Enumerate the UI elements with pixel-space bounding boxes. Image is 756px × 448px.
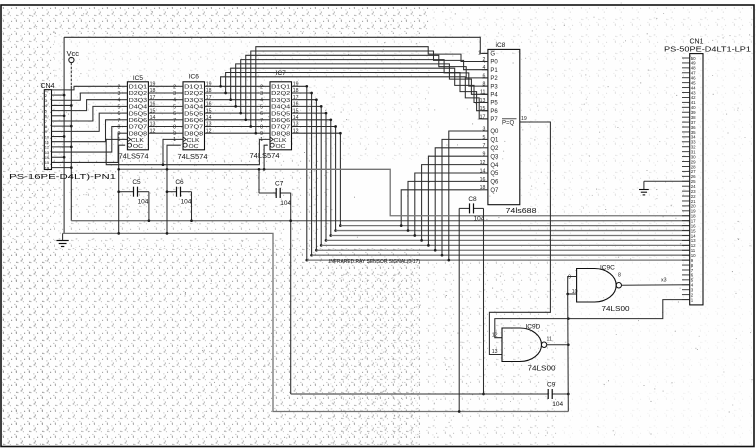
svg-text:8: 8 xyxy=(260,125,263,131)
wire IC9C input pin 9 xyxy=(568,275,577,294)
svg-text:D7Q7: D7Q7 xyxy=(184,125,203,131)
svg-text:3: 3 xyxy=(260,91,263,97)
svg-text:17: 17 xyxy=(691,218,696,223)
svg-text:PS-16PE-D4LT)-PN1: PS-16PE-D4LT)-PN1 xyxy=(9,172,116,181)
svg-text:4: 4 xyxy=(118,98,121,104)
svg-text:74LS00: 74LS00 xyxy=(528,366,556,373)
svg-text:34: 34 xyxy=(691,135,696,140)
svg-text:D1Q1: D1Q1 xyxy=(184,85,203,91)
svg-text:5: 5 xyxy=(483,135,486,141)
svg-text:42: 42 xyxy=(691,95,696,100)
svg-text:D2Q2: D2Q2 xyxy=(129,91,148,97)
svg-text:Q7: Q7 xyxy=(490,188,499,194)
svg-text:35: 35 xyxy=(691,130,696,135)
svg-text:33: 33 xyxy=(691,140,696,145)
svg-text:P1: P1 xyxy=(490,68,498,74)
IC IC5 row labels D1Q1-D8Q8 xyxy=(129,85,148,150)
power Vcc symbol xyxy=(67,49,80,63)
svg-text:37: 37 xyxy=(691,120,696,125)
svg-text:D3Q3: D3Q3 xyxy=(129,98,148,104)
gate IC9C 74LS00 NAND body xyxy=(577,269,617,303)
svg-text:104: 104 xyxy=(181,199,192,206)
svg-text:47: 47 xyxy=(691,71,696,76)
capacitor C7 xyxy=(259,188,291,198)
svg-text:D2Q2: D2Q2 xyxy=(184,91,203,97)
svg-text:Q3: Q3 xyxy=(490,154,499,160)
svg-text:D5Q5: D5Q5 xyxy=(271,111,290,117)
svg-text:IC7: IC7 xyxy=(276,70,287,77)
svg-text:2: 2 xyxy=(118,84,121,90)
connector CN1 pin numbers 50-1 xyxy=(691,56,696,303)
svg-text:C7: C7 xyxy=(275,180,284,187)
svg-text:7: 7 xyxy=(173,118,176,124)
svg-text:C5: C5 xyxy=(132,179,141,186)
svg-text:D6Q6: D6Q6 xyxy=(129,118,148,124)
connector CN1 pin stubs xyxy=(682,58,690,300)
svg-text:36: 36 xyxy=(691,125,696,130)
svg-text:5: 5 xyxy=(173,104,176,110)
IC IC8 74LS688 body xyxy=(488,49,520,204)
svg-text:2: 2 xyxy=(173,84,176,90)
svg-text:7: 7 xyxy=(118,118,121,124)
svg-text:27: 27 xyxy=(691,169,696,174)
svg-text:1: 1 xyxy=(478,50,481,56)
IC IC5 right pin stubs and numbers xyxy=(148,82,155,135)
svg-text:23: 23 xyxy=(691,189,696,194)
svg-text:50: 50 xyxy=(691,56,696,61)
wires top bundle IC6-IC7 rows to IC8 P inputs xyxy=(219,47,488,135)
wire IC9C output pin 8 to CN1 pin 4 xyxy=(618,273,690,286)
IC IC5 74LS574 body xyxy=(127,82,148,150)
IC IC5 OC inversion bubble xyxy=(128,143,132,147)
wire IC8 P=Q output down to IC9D pin 13 xyxy=(489,122,550,355)
svg-text:OC: OC xyxy=(189,144,199,150)
svg-text:44: 44 xyxy=(691,85,696,90)
svg-text:20: 20 xyxy=(691,204,696,209)
svg-text:43: 43 xyxy=(691,90,696,95)
svg-text:31: 31 xyxy=(691,149,696,154)
connector CN4 pin numbers 1-16 xyxy=(45,88,50,171)
svg-text:CN4: CN4 xyxy=(41,83,55,90)
svg-text:22: 22 xyxy=(691,194,696,199)
gate IC9D output bubble xyxy=(541,342,546,347)
wire IC5 OC to ground rail xyxy=(117,145,125,235)
IC IC6 74LS574 body xyxy=(183,82,205,150)
IC IC8 P0-P7 row labels xyxy=(490,60,498,123)
wires middle bundle horizontals to CN1 pins 16-9 xyxy=(307,226,690,261)
svg-text:5: 5 xyxy=(118,104,121,110)
wire IC9C input pin 10 junction xyxy=(566,289,577,295)
svg-text:12: 12 xyxy=(691,243,696,248)
IC IC7 74LS574 body xyxy=(270,82,292,150)
svg-text:2: 2 xyxy=(483,57,486,63)
svg-text:29: 29 xyxy=(691,159,696,164)
svg-text:INFRARED RAY SENSOR SIGNAL(0-1: INFRARED RAY SENSOR SIGNAL(0-17) xyxy=(329,259,420,265)
IC IC7 row labels D1Q1-D8Q8 xyxy=(271,85,291,150)
IC IC6 OC inversion bubble xyxy=(183,143,187,147)
svg-text:30: 30 xyxy=(691,154,696,159)
svg-text:Vcc: Vcc xyxy=(67,49,80,58)
gate IC9C output bubble xyxy=(616,283,621,288)
svg-text:x3: x3 xyxy=(661,278,667,284)
svg-text:8: 8 xyxy=(618,273,621,279)
wires IC6 Q outputs to IC7 D inputs xyxy=(211,86,265,133)
wire C8 right lead down to C9 lead line xyxy=(482,208,485,395)
svg-text:16: 16 xyxy=(45,165,50,170)
IC IC7 OC inversion bubble xyxy=(270,143,274,147)
svg-text:39: 39 xyxy=(691,110,696,115)
svg-text:D8Q8: D8Q8 xyxy=(129,131,148,137)
svg-text:P7: P7 xyxy=(490,117,498,123)
svg-text:4: 4 xyxy=(260,98,263,104)
svg-text:Q5: Q5 xyxy=(490,171,499,177)
svg-text:6: 6 xyxy=(118,111,121,117)
svg-text:4: 4 xyxy=(483,65,486,71)
svg-text:D3Q3: D3Q3 xyxy=(271,98,290,104)
svg-text:D6Q6: D6Q6 xyxy=(271,118,290,124)
svg-text:7: 7 xyxy=(483,143,486,149)
svg-text:D8Q8: D8Q8 xyxy=(271,131,290,137)
svg-text:Q0: Q0 xyxy=(490,129,499,135)
svg-text:D8Q8: D8Q8 xyxy=(184,131,203,137)
svg-text:Q1: Q1 xyxy=(490,138,499,144)
wire ground rail C under ICs to bundle xyxy=(119,169,690,215)
IC IC6 left pin stubs and numbers xyxy=(173,84,183,137)
svg-text:49: 49 xyxy=(691,61,696,66)
wires IC5 Q outputs to IC6 D inputs xyxy=(154,86,177,133)
IC IC6 right pin stubs and numbers xyxy=(205,82,212,135)
IC IC5 clock wedge xyxy=(127,137,130,142)
wires IC8 Q inputs staircase down to middle bundle xyxy=(400,131,482,261)
svg-text:15: 15 xyxy=(480,106,486,112)
svg-text:10: 10 xyxy=(691,253,696,258)
svg-text:D1Q1: D1Q1 xyxy=(271,85,290,91)
svg-text:1: 1 xyxy=(118,137,121,143)
svg-text:2: 2 xyxy=(260,84,263,90)
wire IC6 OC to ground rail xyxy=(166,145,181,235)
wire Vcc vertical to Vcc rail xyxy=(70,63,72,221)
svg-text:C9: C9 xyxy=(547,382,556,389)
wire vertical IC9C input node down to rail xyxy=(567,294,570,412)
svg-text:D5Q5: D5Q5 xyxy=(129,111,148,117)
wire CN1 pin 25 to ground xyxy=(639,181,690,195)
IC IC8 P=Q output label with overline xyxy=(502,119,517,127)
svg-text:D4Q4: D4Q4 xyxy=(184,105,204,111)
svg-text:6: 6 xyxy=(260,111,263,117)
svg-text:P2: P2 xyxy=(490,76,498,82)
wire Vcc rail to CN1 pin 17 xyxy=(71,220,689,222)
svg-text:P0: P0 xyxy=(490,60,498,66)
svg-text:D4Q4: D4Q4 xyxy=(271,105,291,111)
svg-text:48: 48 xyxy=(691,66,696,71)
svg-text:P4: P4 xyxy=(490,93,498,99)
svg-text:104: 104 xyxy=(138,199,149,206)
wire IC7 OC to ground rail C xyxy=(263,145,268,170)
svg-text:32: 32 xyxy=(691,145,696,150)
svg-text:24: 24 xyxy=(691,184,696,189)
svg-text:5: 5 xyxy=(260,104,263,110)
ground symbol lower left xyxy=(57,233,69,246)
IC IC6 row labels D1Q1-D8Q8 xyxy=(184,85,204,150)
svg-text:104: 104 xyxy=(280,200,291,207)
svg-text:38: 38 xyxy=(691,115,696,120)
svg-text:28: 28 xyxy=(691,164,696,169)
connector CN4 body xyxy=(44,90,51,170)
svg-text:PS-50PE-D4LT1-LP1: PS-50PE-D4LT1-LP1 xyxy=(664,47,751,54)
svg-text:19: 19 xyxy=(691,209,696,214)
wire IC9D output pin 11 to vertical xyxy=(547,337,570,347)
IC IC6 clock wedge xyxy=(183,137,186,142)
wire C5 right lead to Vcc rail xyxy=(117,190,150,222)
IC IC7 clock wedge xyxy=(270,137,273,142)
wire C7 right lead down to Vcc rail and C9 lead line xyxy=(289,193,292,394)
svg-text:D7Q7: D7Q7 xyxy=(271,125,290,131)
svg-text:16: 16 xyxy=(691,223,696,228)
svg-text:Q4: Q4 xyxy=(490,163,499,169)
svg-text:1: 1 xyxy=(260,137,263,143)
svg-text:3: 3 xyxy=(483,126,486,132)
svg-text:104: 104 xyxy=(552,401,563,408)
wire C9 right lead junction xyxy=(567,393,570,396)
IC IC8 pin G label with overline xyxy=(490,50,495,58)
svg-text:13: 13 xyxy=(480,98,486,104)
svg-text:OC: OC xyxy=(276,144,286,150)
svg-text:18: 18 xyxy=(691,214,696,219)
wire ground rail B xyxy=(63,233,569,411)
IC IC7 right pin stubs and numbers xyxy=(292,82,299,135)
svg-text:12: 12 xyxy=(492,332,498,338)
svg-text:9: 9 xyxy=(568,275,571,281)
svg-text:C8: C8 xyxy=(468,196,477,203)
svg-text:21: 21 xyxy=(691,199,696,204)
capacitor C8 xyxy=(459,203,483,213)
svg-text:1: 1 xyxy=(173,137,176,143)
svg-text:8: 8 xyxy=(118,125,121,131)
svg-text:13: 13 xyxy=(492,349,498,355)
svg-text:Q2: Q2 xyxy=(490,146,499,152)
svg-text:14: 14 xyxy=(691,233,696,238)
svg-text:Q6: Q6 xyxy=(490,180,499,186)
svg-text:13: 13 xyxy=(691,238,696,243)
svg-text:45: 45 xyxy=(691,80,696,85)
svg-text:6: 6 xyxy=(483,73,486,79)
svg-text:7: 7 xyxy=(260,118,263,124)
svg-text:25: 25 xyxy=(691,179,696,184)
svg-text:11: 11 xyxy=(547,337,552,343)
IC IC8 left pin stubs and numbers xyxy=(478,50,488,191)
svg-text:C6: C6 xyxy=(175,179,184,186)
wire C7 left lead up to ground rail C xyxy=(258,168,261,193)
svg-text:9: 9 xyxy=(483,152,486,158)
svg-text:74ls688: 74ls688 xyxy=(506,208,537,215)
svg-text:G: G xyxy=(490,52,495,58)
wire vertical from L0 down CN4 to ground rail xyxy=(63,37,65,233)
svg-text:74LS574: 74LS574 xyxy=(119,153,149,160)
capacitor C5 xyxy=(119,187,149,197)
svg-text:40: 40 xyxy=(691,105,696,110)
wire C6 right lead to Vcc rail xyxy=(166,190,193,222)
wire net G: top long wire L0 to IC8 pin G xyxy=(64,37,488,53)
IC IC8 Q0-Q7 row labels xyxy=(490,129,499,194)
connector CN1 body xyxy=(690,54,703,305)
svg-text:D6Q6: D6Q6 xyxy=(184,118,203,124)
wires CN4 odd pins staircase to IC5 D inputs xyxy=(52,86,122,162)
svg-text:IC9C: IC9C xyxy=(600,265,615,272)
svg-text:D7Q7: D7Q7 xyxy=(129,125,148,131)
gate IC9D 74LS00 NAND body xyxy=(502,328,542,362)
svg-text:D4Q4: D4Q4 xyxy=(129,105,148,111)
IC IC8 pin 19 stub and number xyxy=(520,116,527,122)
svg-text:D1Q1: D1Q1 xyxy=(129,85,148,91)
IC IC5 left pin stubs and numbers xyxy=(118,84,128,137)
wire C8 left lead down to ground rail extension xyxy=(458,208,461,412)
svg-text:P3: P3 xyxy=(490,84,498,90)
svg-text:19: 19 xyxy=(521,116,527,122)
svg-text:OC: OC xyxy=(133,144,143,150)
svg-text:26: 26 xyxy=(691,174,696,179)
svg-text:6: 6 xyxy=(173,111,176,117)
svg-text:CN1: CN1 xyxy=(689,39,703,46)
svg-text:74LS574: 74LS574 xyxy=(178,154,208,161)
svg-text:11: 11 xyxy=(691,248,696,253)
svg-text:74LS00: 74LS00 xyxy=(602,306,630,313)
svg-text:10: 10 xyxy=(572,289,578,295)
svg-text:D2Q2: D2Q2 xyxy=(271,91,290,97)
wire CN1 pin 1 to IC9D pin 12 and IC9C inputs xyxy=(495,300,690,338)
capacitor C9 xyxy=(291,389,569,399)
svg-text:11: 11 xyxy=(480,90,485,96)
IC IC7 left pin stubs and numbers xyxy=(260,84,270,137)
svg-text:8: 8 xyxy=(173,125,176,131)
wires CN4 even pins to rails with junctions xyxy=(52,94,73,169)
svg-text:46: 46 xyxy=(691,76,696,81)
svg-text:D5Q5: D5Q5 xyxy=(184,111,203,117)
svg-text:4: 4 xyxy=(173,98,176,104)
svg-text:3: 3 xyxy=(118,91,121,97)
svg-text:P=Q: P=Q xyxy=(502,120,515,126)
capacitor C6 xyxy=(167,187,192,197)
svg-text:iC8: iC8 xyxy=(496,42,506,49)
svg-text:IC5: IC5 xyxy=(133,75,144,82)
svg-text:3: 3 xyxy=(173,91,176,97)
wires IC7 Q outputs down to middle bundle xyxy=(298,85,342,262)
svg-text:17: 17 xyxy=(480,114,486,120)
svg-text:P6: P6 xyxy=(490,109,498,115)
svg-text:D3Q3: D3Q3 xyxy=(184,98,203,104)
svg-text:P5: P5 xyxy=(490,101,498,107)
svg-text:IC9D: IC9D xyxy=(526,324,541,331)
wire CLK line IC5 IC6 IC7 xyxy=(106,139,270,166)
svg-text:41: 41 xyxy=(691,100,696,105)
svg-text:8: 8 xyxy=(483,82,486,88)
svg-text:15: 15 xyxy=(691,228,696,233)
svg-text:IC6: IC6 xyxy=(189,74,200,81)
